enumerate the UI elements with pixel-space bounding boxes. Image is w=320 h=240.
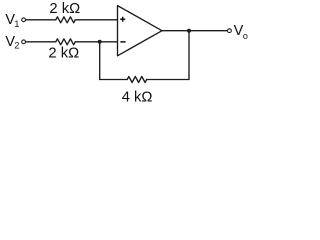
op-amp plus sign [120, 17, 125, 22]
resistor R1 2 kΩ [56, 17, 76, 23]
wire feedback left vertical [99, 42, 101, 80]
svg-text:o: o [243, 31, 248, 41]
node junction on inverting input [98, 40, 102, 44]
node junction on output [187, 29, 191, 33]
svg-text:2 kΩ: 2 kΩ [49, 1, 80, 17]
terminal Vo [228, 29, 232, 33]
svg-text:2 kΩ: 2 kΩ [48, 46, 79, 62]
wire V1 to R1 [26, 19, 56, 21]
wire R1 to op-amp noninverting input [75, 19, 117, 21]
wire feedback right vertical [188, 31, 190, 80]
wire op-amp output to Vo terminal [162, 30, 227, 32]
terminal V1 [22, 18, 26, 22]
terminal V2 [22, 40, 26, 44]
svg-text:2: 2 [14, 41, 19, 51]
op-amp U1 [118, 6, 163, 56]
wire feedback bottom right [147, 79, 189, 81]
op-amp minus sign [120, 41, 125, 43]
wire feedback bottom left [100, 79, 128, 81]
svg-text:1: 1 [14, 19, 19, 29]
resistor R3 4 kΩ [127, 77, 147, 83]
wire V2 to R2 [26, 41, 56, 43]
svg-text:4 kΩ: 4 kΩ [122, 90, 153, 106]
resistor R2 2 kΩ [56, 39, 76, 45]
wire R2 to op-amp inverting input [75, 41, 117, 43]
